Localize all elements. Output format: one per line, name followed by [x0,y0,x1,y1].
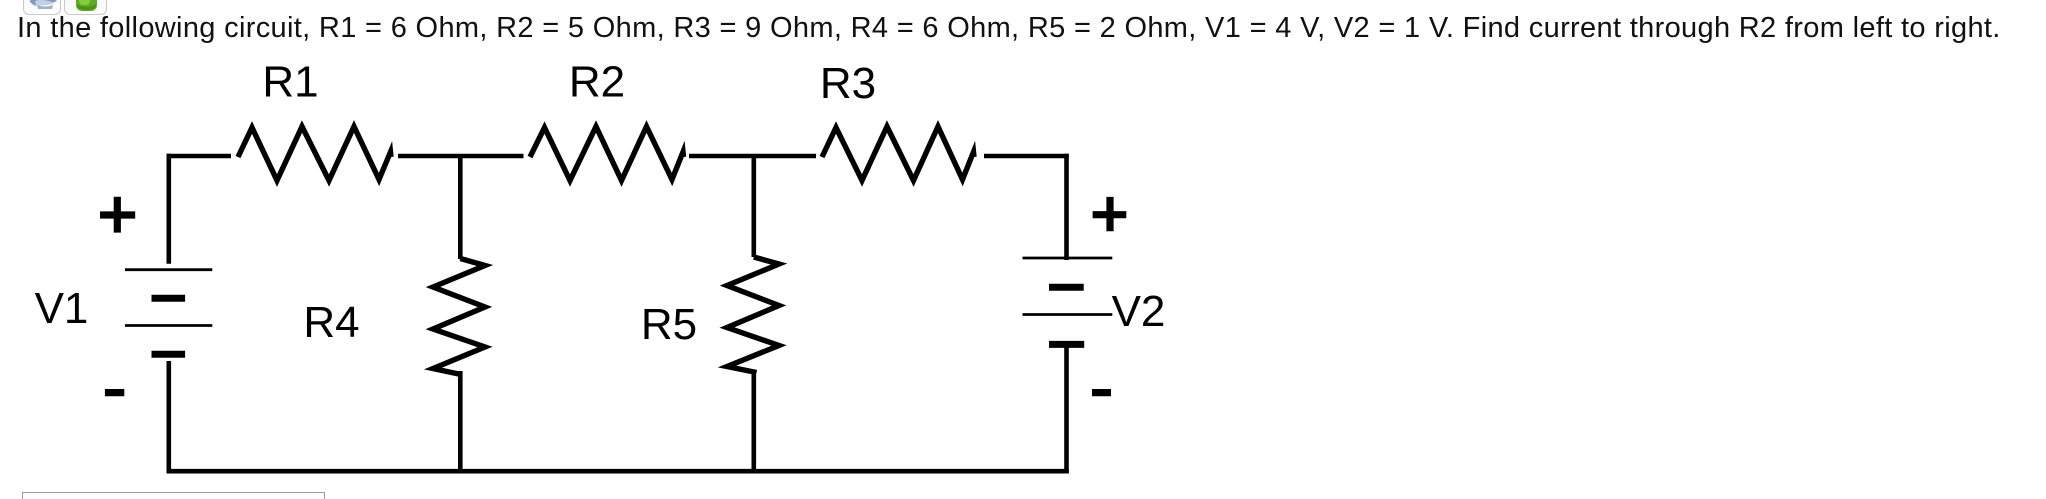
svg-text:R2: R2 [569,58,625,107]
svg-text:V2: V2 [1112,287,1166,336]
svg-text:V1: V1 [35,284,89,333]
svg-text:R1: R1 [262,58,318,107]
svg-text:R5: R5 [641,300,697,349]
svg-text:R3: R3 [820,59,876,108]
svg-text:R4: R4 [303,298,359,347]
